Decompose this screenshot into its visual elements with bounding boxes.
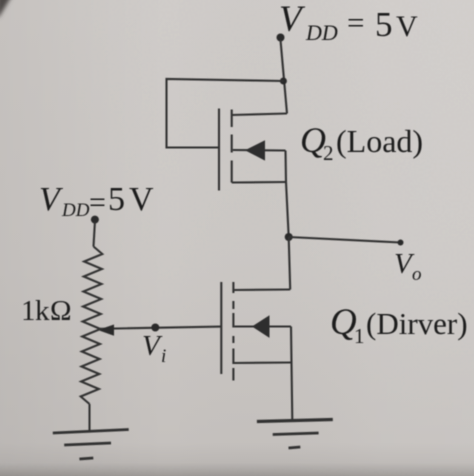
svg-text:5: 5 bbox=[108, 181, 125, 218]
transistor Q2 drain stub bbox=[232, 114, 287, 116]
svg-text:V: V bbox=[129, 181, 154, 218]
svg-text:(Dirver): (Dirver) bbox=[366, 306, 468, 341]
wiper arrow into resistor bbox=[98, 325, 114, 336]
svg-text:o: o bbox=[412, 264, 422, 285]
wire left VDD terminal to resistor bbox=[94, 222, 95, 247]
label 1k ohm bbox=[21, 295, 72, 327]
ground (center) bbox=[257, 420, 333, 449]
svg-text:1: 1 bbox=[21, 295, 36, 327]
svg-text:k: k bbox=[35, 295, 50, 327]
wire Q2 gate loop (gate tied to drain rail) bbox=[167, 79, 284, 148]
svg-text:DD: DD bbox=[61, 200, 90, 221]
svg-text:i: i bbox=[161, 346, 166, 367]
transistor Q2 body arrow bbox=[245, 140, 265, 160]
node left VDD terminal dot bbox=[91, 216, 99, 224]
resistor R 1k zigzag bbox=[81, 247, 103, 405]
label VDD=5V (left) bbox=[39, 181, 154, 221]
svg-text:=: = bbox=[347, 5, 364, 40]
transistor Q2 channel dashes bbox=[231, 110, 233, 183]
wire Q1 gate to input divider bbox=[100, 327, 221, 329]
wire Q2 body/source rail down to output node bbox=[286, 151, 289, 238]
node Vi junction dot bbox=[151, 324, 159, 332]
wire VDD terminal down to Q2 drain bbox=[281, 40, 288, 114]
transistor Q1 channel dashes bbox=[232, 282, 234, 381]
transistor Q2 source stub bbox=[232, 181, 286, 184]
svg-text:Q: Q bbox=[330, 302, 357, 343]
node junction gate-loop / VDD rail bbox=[280, 78, 287, 85]
svg-text:2: 2 bbox=[323, 141, 334, 165]
svg-text:V: V bbox=[396, 10, 418, 43]
svg-text:1: 1 bbox=[354, 324, 365, 348]
wire Q1 body/source rail down to ground bbox=[291, 327, 292, 421]
svg-text:5: 5 bbox=[375, 5, 393, 44]
svg-text:Ω: Ω bbox=[50, 295, 72, 327]
transistor Q2 body stub bbox=[233, 149, 286, 152]
svg-text:DD: DD bbox=[305, 20, 338, 45]
node VDD top terminal dot bbox=[277, 34, 285, 42]
node Vo terminal dot bbox=[398, 240, 404, 246]
wire resistor bottom to ground bbox=[88, 404, 90, 431]
transistor Q1 body stub bbox=[234, 325, 291, 327]
node output junction dot bbox=[285, 233, 293, 241]
transistor Q1 drain stub bbox=[233, 288, 290, 291]
transistor Q1 gate line bbox=[220, 282, 222, 374]
ground (left) bbox=[53, 430, 129, 460]
transistor Q1 body arrow bbox=[252, 315, 270, 338]
svg-text:=: = bbox=[89, 186, 106, 219]
label VDD = 5V (top) bbox=[279, 0, 418, 45]
transistor Q1 source stub bbox=[233, 361, 291, 364]
photo corner mark top-left bbox=[0, 0, 13, 17]
transistor Q2 gate line bbox=[218, 109, 220, 191]
svg-text:(Load): (Load) bbox=[336, 123, 423, 159]
label Vo bbox=[394, 248, 422, 285]
label Q2 (Load) bbox=[300, 120, 423, 165]
label Vi bbox=[142, 330, 166, 367]
wire output node down to Q1 drain bbox=[289, 237, 291, 290]
label Q1 (Dirver) bbox=[330, 302, 468, 348]
wire output node to Vo terminal bbox=[289, 237, 401, 243]
